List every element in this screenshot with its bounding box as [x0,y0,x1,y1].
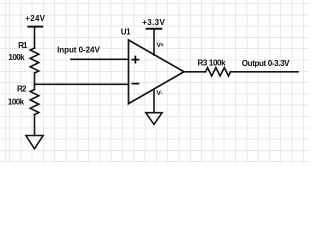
resistor R2 [30,90,39,115]
svg-text:+24V: +24V [25,14,45,23]
wire +24V to R1 [34,27,36,48]
svg-text:+3.3V: +3.3V [142,18,165,27]
wire R1 to node A [34,73,36,84]
resistor R3 [206,68,231,76]
wire node A to R2 [34,84,36,89]
wire V- pin [153,89,155,113]
wire op-amp output to R3 [184,71,206,73]
wire R3 to output [231,71,299,73]
op-amp plus input sign [132,57,138,63]
svg-text:R2: R2 [17,85,27,94]
wire R2 to ground [34,115,36,136]
resistor R1 [30,48,39,73]
wire V+ pin [153,29,155,55]
wire input to non-inverting input [71,58,129,60]
ground (below R2) [26,136,43,149]
svg-text:V-: V- [157,90,163,97]
svg-text:100k: 100k [8,98,25,107]
node A wire to inverting input [35,83,129,85]
op-amp minus input sign [132,83,138,85]
svg-text:Input 0-24V: Input 0-24V [57,46,100,55]
svg-text:Output 0-3.3V: Output 0-3.3V [242,59,290,68]
svg-text:R1: R1 [18,41,28,50]
op-amp U1 triangle [129,40,185,104]
+24V power bar [28,26,42,28]
+3.3V power bar [147,28,162,30]
svg-text:U1: U1 [121,27,131,36]
svg-text:V+: V+ [157,42,165,49]
ground (below V- pin) [146,113,162,125]
svg-text:R3 100k: R3 100k [198,59,227,68]
svg-text:100k: 100k [8,53,25,62]
